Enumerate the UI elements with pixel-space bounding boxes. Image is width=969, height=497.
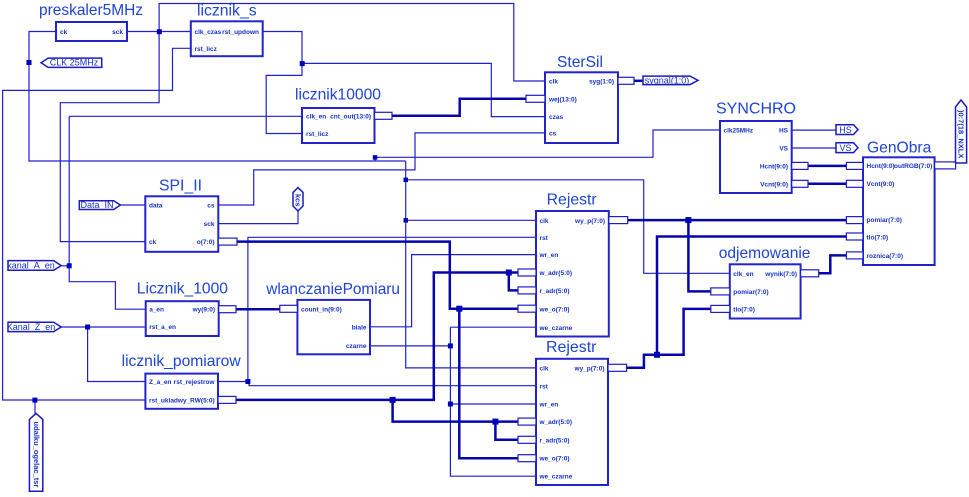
svg-text:we_czarne: we_czarne bbox=[539, 325, 573, 332]
junction clk jog bbox=[373, 155, 378, 160]
svg-text:data: data bbox=[149, 203, 163, 210]
svg-text:r_adr(5:0): r_adr(5:0) bbox=[540, 288, 570, 295]
svg-text:we_o(7:0): we_o(7:0) bbox=[539, 456, 570, 463]
svg-text:HS: HS bbox=[779, 128, 789, 135]
svg-text:cs: cs bbox=[207, 203, 215, 210]
wire CLK25MHz net: preskaler clk feed bbox=[29, 32, 730, 368]
svg-text:udalku_ogelac_tsr: udalku_ogelac_tsr bbox=[32, 422, 41, 488]
svg-text:HS: HS bbox=[839, 125, 852, 135]
bus stub GenObra Hcnt bbox=[846, 162, 863, 169]
junction rst_calego bbox=[32, 398, 37, 403]
flag Data_IN bbox=[79, 200, 120, 210]
wire czarne net: wlanczaniePomiaru.czarne to we_czarne and Rejestr2 wr_en bbox=[370, 327, 536, 476]
junction Kanal_Z_en bbox=[85, 325, 90, 330]
svg-text:clk_czas: clk_czas bbox=[195, 29, 222, 36]
bus stub wy bbox=[219, 306, 236, 313]
bus stub count_in bbox=[280, 305, 298, 312]
bus wy_p Rejestr2 to GenObra.tlo and odjemowanie.tlo bbox=[627, 237, 847, 368]
bus wynik: odjemowanie to GenObra.roznica bbox=[819, 255, 847, 273]
svg-text:rst_ukladwy_RW(5:0): rst_ukladwy_RW(5:0) bbox=[149, 397, 215, 404]
svg-text:tlo(7:0): tlo(7:0) bbox=[867, 235, 889, 242]
bus stub odj tlo bbox=[711, 305, 730, 312]
svg-text:biale: biale bbox=[352, 324, 367, 331]
svg-text:Data_IN: Data_IN bbox=[80, 200, 113, 210]
bus stub wej bbox=[526, 95, 545, 102]
svg-text:rst_rejestrow: rst_rejestrow bbox=[174, 379, 216, 386]
svg-text:we_o(7:0): we_o(7:0) bbox=[539, 306, 570, 313]
svg-text:Vcnt(9:0): Vcnt(9:0) bbox=[760, 181, 788, 188]
svg-text:Vcnt(9:0): Vcnt(9:0) bbox=[867, 181, 895, 188]
svg-text:)0:7(18_NXLX: )0:7(18_NXLX bbox=[957, 110, 966, 158]
bus stub GenObra tlo bbox=[846, 233, 863, 240]
bus stub r_adr2 bbox=[518, 436, 536, 443]
svg-text:SPI_II: SPI_II bbox=[159, 178, 202, 195]
svg-text:ck: ck bbox=[60, 29, 68, 36]
svg-text:preskaler5MHz: preskaler5MHz bbox=[39, 2, 143, 19]
block Licznik_1000 bbox=[137, 281, 236, 337]
bus stub Vcnt bbox=[792, 180, 808, 187]
svg-text:Z_a_en: Z_a_en bbox=[149, 379, 171, 386]
svg-text:clk: clk bbox=[540, 365, 549, 372]
flag sck vertical bbox=[293, 188, 303, 211]
block Rejestr 2 bbox=[518, 339, 627, 485]
bus stub Hcnt bbox=[792, 162, 808, 169]
block SterSil bbox=[526, 54, 634, 143]
wire spi cs net: SPI_II.cs to SterSil.cs bbox=[218, 133, 545, 205]
bus stub outRGB bbox=[935, 162, 956, 169]
svg-text:cnt_out(13:0): cnt_out(13:0) bbox=[330, 114, 371, 121]
bus stub cnt_out bbox=[375, 112, 393, 119]
svg-text:wr_en: wr_en bbox=[539, 252, 559, 259]
svg-text:pomiar(7:0): pomiar(7:0) bbox=[733, 289, 768, 296]
svg-text:SterSil: SterSil bbox=[557, 54, 603, 71]
svg-text:sygnal(1:0): sygnal(1:0) bbox=[645, 75, 690, 85]
bus RW(5:0): licznik_pomiarow to Rejestr address ports bbox=[236, 273, 518, 440]
svg-text:rst_a_en: rst_a_en bbox=[149, 324, 176, 331]
flag Kanal_Z_en bbox=[7, 322, 61, 332]
svg-text:Rejestr: Rejestr bbox=[546, 339, 597, 356]
svg-text:wlanczaniePomiaru: wlanczaniePomiaru bbox=[265, 281, 400, 298]
bus cnt_out(13:0): licznik10000 to SterSil.wej bbox=[392, 99, 526, 116]
bus stub wynik bbox=[801, 270, 819, 277]
bus wy_p Rejestr1 to GenObra.pomiar and odjemowanie.pomiar bbox=[628, 220, 847, 291]
flag CLK 25MHz bbox=[41, 58, 102, 68]
svg-text:ck: ck bbox=[149, 239, 157, 246]
svg-text:sck: sck bbox=[112, 29, 123, 36]
wire rst_updown net: licznik_s out to licznik10000.rst_licz and SterSil.czas bbox=[263, 32, 545, 134]
bus stub o bbox=[218, 238, 237, 245]
junction RW r_adr1 bbox=[506, 270, 512, 276]
wire kanal_A_en net bbox=[61, 116, 302, 309]
svg-text:r_adr(5:0): r_adr(5:0) bbox=[540, 437, 570, 444]
svg-text:Rejestr: Rejestr bbox=[547, 192, 597, 209]
wire rst_rejestrow net: licznik_pomiarow to Rejestr1.rst Rejestr2.rst bbox=[218, 237, 536, 385]
svg-text:w_adr(5:0): w_adr(5:0) bbox=[539, 419, 573, 426]
bus stub r_adr1 bbox=[518, 287, 536, 294]
junction czarne wr_en bbox=[448, 402, 453, 407]
wire sclk net: preskaler sclk to licznik_s / SterSil / SPI_II bbox=[60, 4, 545, 242]
svg-text:wy(9:0): wy(9:0) bbox=[192, 307, 215, 314]
svg-text:licznik10000: licznik10000 bbox=[295, 87, 381, 104]
svg-text:kcs: kcs bbox=[293, 194, 302, 207]
flag VS bbox=[836, 143, 858, 153]
wire HS bbox=[792, 129, 836, 131]
svg-text:roznica(7:0): roznica(7:0) bbox=[867, 253, 903, 260]
svg-text:rst: rst bbox=[540, 383, 549, 390]
bus stub we_o2 bbox=[518, 455, 536, 462]
flag rst_calego_ukladu vertical bbox=[29, 413, 42, 491]
svg-text:wynik(7:0): wynik(7:0) bbox=[764, 271, 797, 278]
wire Data_IN bbox=[120, 204, 145, 206]
svg-text:clk_en: clk_en bbox=[733, 271, 753, 278]
block Rejestr 1 bbox=[518, 192, 628, 337]
junction clk to Rejestr1 bbox=[404, 218, 409, 223]
bus stub RW bbox=[218, 396, 236, 403]
svg-text:Hcnt(9:0): Hcnt(9:0) bbox=[867, 163, 895, 170]
svg-text:count_in(9:0): count_in(9:0) bbox=[301, 306, 342, 313]
svg-text:licznik_pomiarow: licznik_pomiarow bbox=[122, 353, 242, 370]
svg-text:wej(13:0): wej(13:0) bbox=[548, 96, 577, 103]
wire rst_calego net: flag to licznik_s.rst_licz and licznik_pomiarow bbox=[3, 48, 191, 413]
junction wy_p2 bbox=[654, 352, 660, 358]
wire biale net: wlanczaniePomiaru.biale to Rejestr1.wr_en bbox=[370, 255, 536, 327]
bus stub w_adr1 bbox=[518, 269, 536, 276]
svg-text:odjemowanie: odjemowanie bbox=[719, 245, 811, 262]
flag kanal_A_en bbox=[7, 261, 61, 271]
svg-text:wr_en: wr_en bbox=[539, 402, 559, 409]
svg-text:syg(1:0): syg(1:0) bbox=[589, 78, 614, 85]
block licznik_pomiarow bbox=[122, 353, 242, 409]
svg-text:rst_licz: rst_licz bbox=[306, 131, 329, 138]
svg-text:clk: clk bbox=[540, 218, 549, 225]
junction czarne tee bbox=[448, 343, 453, 348]
block GenObra bbox=[846, 140, 955, 266]
wire Kanal_Z_en net bbox=[61, 327, 146, 382]
junction RW r_adr2 bbox=[492, 419, 498, 425]
junction rst_rejestrow bbox=[245, 379, 250, 384]
block odjemowanie bbox=[711, 245, 819, 319]
svg-text:pomiar(7:0): pomiar(7:0) bbox=[867, 217, 902, 224]
svg-text:tlo(7:0): tlo(7:0) bbox=[733, 306, 755, 313]
svg-text:czas: czas bbox=[549, 114, 563, 121]
bus stub we_o1 bbox=[518, 305, 536, 312]
svg-text:Licznik_1000: Licznik_1000 bbox=[137, 281, 228, 298]
svg-text:sck: sck bbox=[204, 221, 215, 228]
svg-text:w_adr(5:0): w_adr(5:0) bbox=[539, 270, 573, 277]
svg-text:rst_licz: rst_licz bbox=[195, 46, 218, 53]
svg-text:clk: clk bbox=[549, 78, 558, 85]
junction RW bus split bbox=[390, 397, 396, 403]
block SYNCHRO bbox=[716, 101, 808, 194]
bus stub syg bbox=[618, 77, 634, 84]
svg-text:Hcnt(9:0): Hcnt(9:0) bbox=[760, 163, 788, 170]
wire VS bbox=[792, 147, 836, 149]
block licznik10000 bbox=[295, 87, 392, 144]
bus spi o(7:0): SPI_II to Rejestr we_o ports bbox=[237, 242, 518, 459]
junction sclk bbox=[157, 29, 162, 34]
svg-text:Kanal_Z_en: Kanal_Z_en bbox=[7, 322, 56, 332]
svg-text:cs: cs bbox=[549, 130, 557, 137]
flag HS bbox=[836, 125, 858, 135]
bus wy(9:0): Licznik_1000 to wlanczaniePomiaru bbox=[236, 308, 280, 311]
bus syg(1:0): SterSil to sygnal flag bbox=[634, 80, 643, 83]
svg-text:wy_p(7:0): wy_p(7:0) bbox=[574, 218, 605, 225]
svg-text:czarne: czarne bbox=[346, 343, 367, 350]
svg-text:GenObra: GenObra bbox=[867, 140, 932, 157]
bus stub wy_p2 bbox=[608, 364, 627, 371]
svg-text:wy_p(7:0): wy_p(7:0) bbox=[574, 365, 605, 372]
svg-text:rst_updown: rst_updown bbox=[222, 29, 259, 36]
bus stub GenObra pomiar bbox=[846, 217, 863, 224]
bus stub GenObra roznica bbox=[846, 252, 863, 259]
flag sygnal(1:0) bbox=[643, 75, 698, 85]
svg-text:clk25MHz: clk25MHz bbox=[724, 128, 754, 135]
bus Hcnt SYNCHRO to GenObra bbox=[808, 165, 846, 168]
junction kanal_A_en bbox=[67, 263, 72, 268]
svg-text:we_czarne: we_czarne bbox=[539, 474, 573, 481]
svg-text:VS: VS bbox=[839, 143, 851, 153]
svg-text:SYNCHRO: SYNCHRO bbox=[716, 101, 796, 118]
junction o bus bbox=[456, 306, 462, 312]
svg-text:VS: VS bbox=[779, 146, 788, 153]
junction wy_p1 bbox=[685, 217, 691, 223]
svg-text:kanal_A_en: kanal_A_en bbox=[7, 261, 55, 271]
svg-text:rst: rst bbox=[540, 235, 549, 242]
block wlanczaniePomiaru bbox=[265, 281, 400, 354]
svg-text:licznik_s: licznik_s bbox=[197, 3, 257, 20]
flag XLXN_81 vertical bbox=[956, 100, 967, 163]
svg-text:o(7:0): o(7:0) bbox=[197, 239, 215, 246]
svg-text:outRGB(7:0): outRGB(7:0) bbox=[894, 163, 932, 170]
junction clk to odjemowanie bbox=[404, 178, 409, 183]
block SPI_II bbox=[145, 178, 237, 252]
svg-text:a_en: a_en bbox=[149, 307, 164, 314]
bus stub GenObra Vcnt bbox=[846, 180, 863, 187]
bus stub odj pomiar bbox=[711, 288, 730, 295]
block licznik_s bbox=[191, 3, 263, 57]
svg-text:clk_en: clk_en bbox=[306, 114, 326, 121]
junction rst_updown bbox=[300, 61, 305, 66]
bus stub wy_p1 bbox=[609, 217, 628, 224]
bus stub w_adr2 bbox=[518, 418, 536, 425]
svg-text:CLK 25MHz: CLK 25MHz bbox=[50, 58, 99, 68]
wire spi sck net to SCK flag bbox=[218, 211, 298, 224]
junction CLK25MHz at input flag bbox=[27, 60, 32, 65]
block preskaler5MHz bbox=[39, 2, 143, 41]
bus Vcnt SYNCHRO to GenObra bbox=[808, 183, 846, 186]
